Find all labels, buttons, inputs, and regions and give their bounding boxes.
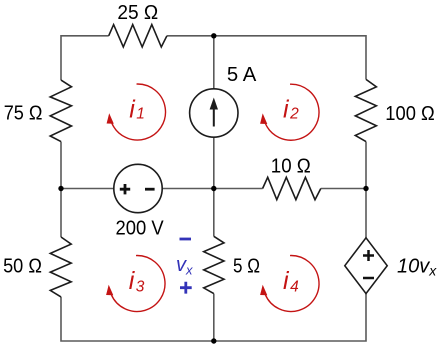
current source 5A circle — [190, 89, 238, 137]
dependent source diamond 10vx — [345, 238, 387, 294]
wire middle horizontal left of 200V — [61, 188, 114, 190]
minus sign inside 200V — [145, 188, 155, 191]
resistor 50ohm zigzag — [50, 237, 71, 297]
mesh arrow i2 arc — [265, 84, 319, 140]
node dot bottom middle — [211, 338, 216, 343]
node dot left middle — [58, 186, 63, 191]
mesh arrow i4 arc — [265, 256, 319, 312]
svg-text:100 Ω: 100 Ω — [385, 103, 434, 125]
svg-text:5 A: 5 A — [227, 64, 257, 86]
svg-text:200 V: 200 V — [116, 218, 165, 240]
wire bottom-right corner — [214, 294, 366, 341]
node vx minus label — [180, 238, 192, 241]
resistor 75ohm zigzag — [50, 80, 71, 142]
svg-text:75 Ω: 75 Ω — [4, 102, 43, 124]
wire middle horizontal right of 10ohm — [321, 188, 366, 190]
current source 5A arrow — [213, 108, 215, 127]
minus sign inside diamond — [363, 277, 374, 280]
node vx plus label — [180, 282, 192, 294]
svg-text:50 Ω: 50 Ω — [3, 256, 42, 278]
resistor 5ohm zigzag — [204, 236, 224, 293]
plus sign inside diamond — [363, 250, 374, 261]
voltage source 200V circle — [114, 164, 162, 212]
node dot top middle — [211, 33, 216, 38]
wire top-right corner — [167, 36, 366, 80]
resistor 25ohm zigzag — [109, 25, 167, 47]
mesh arrow i1 arc — [112, 84, 166, 140]
wire middle horizontal 200V to 10ohm — [162, 188, 262, 190]
wire top-left corner — [61, 36, 109, 80]
plus sign inside 200V — [120, 184, 130, 194]
node dot right middle — [363, 186, 368, 191]
svg-text:25 Ω: 25 Ω — [117, 2, 158, 24]
wire right rail middle — [365, 142, 367, 238]
mesh arrow i3 arc — [111, 256, 165, 312]
svg-text:10 Ω: 10 Ω — [271, 155, 311, 177]
node dot center middle — [211, 186, 216, 191]
resistor 10ohm zigzag — [263, 177, 321, 199]
svg-text:5 Ω: 5 Ω — [233, 256, 260, 278]
wire left rail middle — [60, 142, 62, 237]
resistor 100ohm zigzag — [355, 79, 376, 141]
wire bottom-left corner — [61, 297, 214, 341]
wire mid rail middle — [213, 137, 215, 236]
wire mid rail bottom stub — [213, 294, 215, 341]
wire mid rail top stub — [213, 36, 215, 89]
